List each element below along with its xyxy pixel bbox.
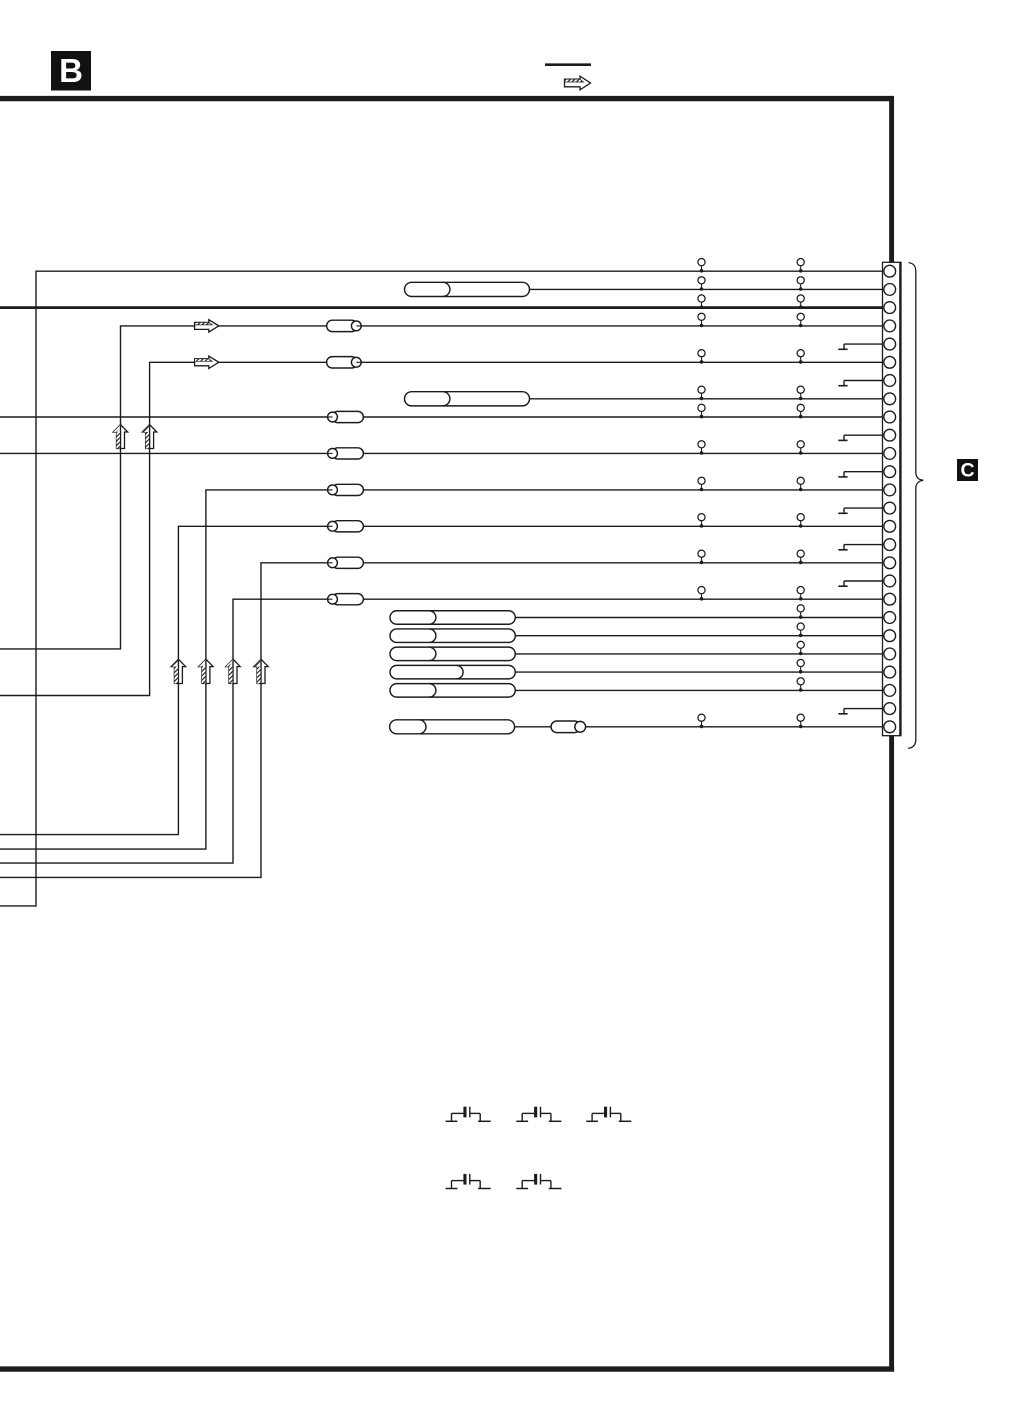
- cable coupler net 19: [328, 594, 364, 605]
- page border top: [0, 96, 894, 101]
- direction arrow net 4: [195, 320, 219, 332]
- junction pin B net 17: [797, 550, 804, 564]
- up arrow net 19: [226, 659, 240, 683]
- capacitor C2: [516, 1107, 561, 1122]
- svg-text:B: B: [59, 52, 83, 89]
- junction pin B net 8: [797, 386, 804, 400]
- junction pin B net 23: [797, 659, 804, 673]
- NC stub pin 12: [838, 472, 883, 477]
- shielded cable W23: [390, 665, 515, 679]
- junction pin B net 4: [797, 313, 804, 327]
- junction pin B net 9: [797, 404, 804, 418]
- NC stub pin 10: [838, 435, 883, 440]
- junction pin B net 6: [797, 350, 804, 364]
- wire net 19 (from bottom left) to pin 19: [0, 599, 883, 863]
- wire net 1 (left loop to pin 1): [0, 271, 883, 906]
- junction pin A net 13: [698, 477, 705, 491]
- junction pin B net 15: [797, 514, 804, 528]
- up arrow net 13: [199, 659, 213, 683]
- junction pin A net 9: [698, 404, 705, 418]
- overline mark: [545, 63, 591, 66]
- NC stub pin 16: [838, 545, 883, 550]
- junction pin B net 20: [797, 605, 804, 619]
- junction pin B net 2: [797, 277, 804, 291]
- wire net 6 (from lower left) to pin 6: [0, 362, 883, 695]
- shielded cable W2: [405, 282, 530, 296]
- wire net 2 to pin 2: [530, 288, 884, 290]
- wire net 17 (from bottom left) to pin 17: [0, 563, 883, 878]
- junction pin B net 11: [797, 441, 804, 455]
- junction pin A net 3: [698, 295, 705, 309]
- NC stub pin 5: [838, 344, 883, 349]
- page border bottom: [0, 1366, 894, 1371]
- junction pin A net 17: [698, 550, 705, 564]
- cable coupler net 6: [327, 357, 362, 368]
- NC stub pin 14: [838, 508, 883, 513]
- capacitor C1: [446, 1107, 491, 1122]
- up arrow net 17: [254, 659, 268, 683]
- wire net 8 to pin 8: [530, 398, 884, 400]
- cable coupler net 13: [328, 484, 364, 495]
- wire net 22 to pin 22: [515, 653, 883, 655]
- wire net 26 segments: [515, 726, 883, 728]
- label C: [957, 459, 978, 482]
- shielded cable W26: [390, 720, 515, 734]
- shielded cable W24: [390, 684, 515, 698]
- NC stub pin 7: [838, 381, 883, 386]
- capacitor C4: [446, 1174, 491, 1189]
- junction pin B net 19: [797, 587, 804, 601]
- cable coupler net 4: [327, 320, 362, 331]
- NC stub pin 25: [838, 709, 883, 714]
- junction pin A net 19: [698, 587, 705, 601]
- shielded cable W8: [405, 392, 530, 406]
- junction pin B net 13: [797, 477, 804, 491]
- junction pin A net 11: [698, 441, 705, 455]
- shielded cable W22: [390, 647, 515, 661]
- junction pin A net 15: [698, 514, 705, 528]
- wire net 9 to pin 9: [0, 416, 883, 418]
- junction pin B net 26: [797, 714, 804, 728]
- cable coupler net 17: [328, 557, 364, 568]
- cable coupler net 15: [328, 521, 364, 532]
- NC stub pin 18: [838, 581, 883, 586]
- junction pin B net 24: [797, 678, 804, 692]
- up arrow net 15: [171, 659, 185, 683]
- junction pin B net 21: [797, 623, 804, 637]
- wire net 3 (bus, bold) to pin 3: [0, 306, 883, 309]
- up arrow net 6: [142, 425, 156, 449]
- junction pin A net 2: [698, 277, 705, 291]
- cable coupler net 9: [328, 411, 364, 422]
- capacitor C3: [586, 1107, 631, 1122]
- wire net 24 to pin 24: [515, 689, 883, 691]
- wire net 21 to pin 21: [515, 635, 883, 637]
- wire net 20 to pin 20: [515, 617, 883, 619]
- page border right lower: [889, 735, 894, 1372]
- shielded cable W20: [390, 611, 515, 625]
- junction pin A net 4: [698, 313, 705, 327]
- svg-text:C: C: [960, 460, 974, 482]
- cable coupler net 11: [328, 448, 364, 459]
- up arrow net 4: [113, 425, 127, 449]
- junction pin B net 3: [797, 295, 804, 309]
- wire net 15 (from bottom left) to pin 15: [0, 526, 883, 834]
- wire net 11 to pin 11: [0, 452, 883, 454]
- wire net 23 to pin 23: [515, 671, 883, 673]
- brace group C: [908, 263, 923, 749]
- label B: [51, 51, 91, 91]
- page border right upper: [889, 96, 894, 263]
- capacitor C5: [516, 1174, 561, 1189]
- junction pin B net 22: [797, 641, 804, 655]
- direction arrow net 6: [195, 356, 219, 368]
- connector CN pins 1-26: [884, 265, 896, 732]
- junction pin B net 1: [797, 259, 804, 273]
- direction arrow (top): [565, 76, 591, 90]
- junction pin A net 8: [698, 386, 705, 400]
- junction pin A net 6: [698, 350, 705, 364]
- connector CN housing: [883, 262, 901, 735]
- cable coupler net 26: [551, 721, 586, 733]
- wire net 13 (from bottom left) to pin 13: [0, 490, 883, 849]
- junction pin A net 1: [698, 259, 705, 273]
- junction pin A net 26: [698, 714, 705, 728]
- wire net 4 (from lower left) to pin 4: [0, 326, 883, 649]
- shielded cable W21: [390, 629, 515, 643]
